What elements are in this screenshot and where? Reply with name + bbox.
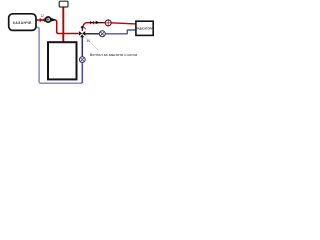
svg-text:Вентил за заштита о котла: Вентил за заштита о котла xyxy=(90,53,138,57)
svg-text:КАЗАНЧЕ: КАЗАНЧЕ xyxy=(13,21,32,25)
svg-text:РАДИЈАТОРИ: РАДИЈАТОРИ xyxy=(136,27,153,30)
svg-text:12: 12 xyxy=(40,14,44,18)
